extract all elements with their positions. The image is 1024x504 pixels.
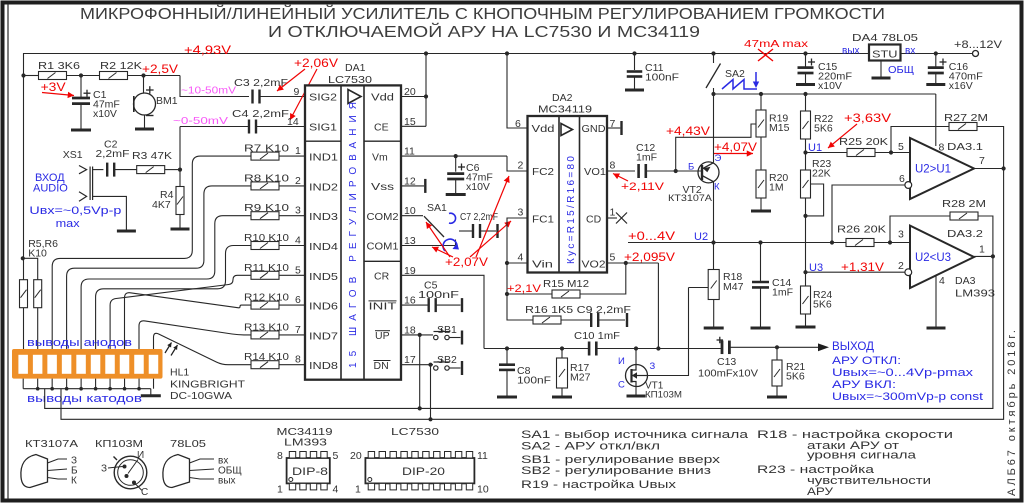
signal line CR/C8/R17/C10 — [484, 348, 589, 350]
svg-text:IND6: IND6 — [309, 301, 338, 313]
svg-text:U2: U2 — [694, 231, 708, 243]
svg-text:8: 8 — [295, 354, 301, 366]
capacitor C6 47mF — [454, 154, 458, 158]
svg-text:1: 1 — [277, 484, 283, 496]
svg-text:VO1: VO1 — [584, 166, 606, 178]
svg-text:M27: M27 — [570, 372, 591, 384]
svg-text:K10: K10 — [28, 248, 47, 260]
svg-text:вых: вых — [218, 476, 236, 487]
wire DA3.1 output pin7 — [974, 168, 1004, 170]
wires R5,R6 to LED anodes — [23, 308, 25, 349]
svg-text:VO2: VO2 — [582, 259, 606, 271]
node U3 — [803, 270, 807, 274]
Vss pin12 termination — [401, 185, 424, 187]
ground R21 — [767, 396, 787, 399]
svg-text:IND4: IND4 — [309, 241, 338, 253]
svg-text:Uвх=~0,5Vp-p: Uвх=~0,5Vp-p — [29, 205, 121, 217]
wire fan IND6 — [125, 293, 252, 349]
resistor R26 20K — [846, 239, 874, 247]
svg-text:3: 3 — [295, 205, 301, 217]
svg-text:8: 8 — [610, 160, 616, 172]
resistor R3 — [137, 166, 165, 174]
inner left margin line — [7, 4, 9, 499]
svg-text:АЛБ67 октябрь 2018г.: АЛБ67 октябрь 2018г. — [1006, 330, 1018, 496]
svg-text:CR: CR — [374, 271, 390, 283]
svg-text:11: 11 — [477, 450, 488, 462]
svg-text:IND2: IND2 — [309, 181, 338, 193]
node U1 — [803, 150, 807, 154]
capacitor C3 — [253, 90, 260, 104]
capacitor C11 100nF — [634, 54, 636, 71]
ground 78L05 — [872, 77, 891, 80]
wire CE pin15 & Vdd pin20 to rail — [401, 96, 426, 98]
ground R17 — [552, 396, 572, 399]
svg-text:XS1: XS1 — [63, 149, 83, 161]
svg-text:MC34119: MC34119 — [538, 104, 592, 116]
svg-text:+4,43V: +4,43V — [666, 126, 710, 138]
ground C1 — [71, 129, 91, 132]
svg-text:DC-10GWA: DC-10GWA — [170, 390, 232, 402]
svg-text:R2 12K: R2 12K — [100, 60, 142, 72]
bus: DA3.1 output to DN button — [61, 169, 1004, 420]
ground R24 — [796, 326, 816, 329]
svg-text:1: 1 — [610, 207, 616, 219]
resistor R20 1M — [756, 170, 766, 198]
resistor R18 M47 — [713, 243, 715, 270]
op-amp U1: IC DA1 LC7530 block — [305, 85, 401, 379]
svg-text:З: З — [650, 361, 656, 372]
wire fan IND4 — [96, 246, 251, 350]
svg-text:AUDIO: AUDIO — [33, 183, 68, 195]
output arrow — [777, 346, 821, 348]
resistor R4 — [179, 170, 181, 186]
switch SA2 — [713, 54, 715, 64]
svg-text:Vdd: Vdd — [371, 92, 394, 104]
ground C6 — [446, 193, 466, 196]
svg-text:SB2 - регулирование вниз: SB2 - регулирование вниз — [521, 465, 711, 477]
svg-text:R26 20K: R26 20K — [837, 224, 886, 236]
svg-text:9: 9 — [294, 86, 300, 98]
svg-text:+2,06V: +2,06V — [294, 56, 338, 70]
svg-text:ВЫХОД: ВЫХОД — [832, 339, 874, 353]
resistor R5 — [20, 280, 28, 308]
ground C14 — [751, 327, 771, 330]
svg-text:x10V: x10V — [93, 108, 117, 120]
svg-text:INIT: INIT — [369, 300, 398, 312]
svg-text:DA4 78L05: DA4 78L05 — [852, 32, 918, 44]
ground C8 — [497, 396, 517, 399]
svg-text:SA1 - выбор источника сигнала: SA1 - выбор источника сигнала — [521, 429, 749, 441]
svg-text:3: 3 — [518, 207, 524, 219]
push button SB2 — [401, 364, 433, 366]
svg-text:1: 1 — [295, 145, 301, 157]
wire DN button to bottom bus — [430, 365, 432, 420]
wire fan IND2 — [67, 186, 251, 349]
svg-text:STU: STU — [872, 49, 898, 61]
ground C16 — [926, 83, 945, 86]
svg-text:DIP-8: DIP-8 — [292, 466, 328, 478]
svg-text:HL1: HL1 — [170, 367, 189, 379]
wire: line input node to C4 — [179, 127, 181, 170]
svg-text:4: 4 — [295, 235, 301, 247]
svg-text:+2,095V: +2,095V — [624, 252, 675, 264]
svg-text:DA3: DA3 — [955, 275, 976, 287]
svg-text:IND8: IND8 — [309, 360, 338, 372]
svg-text:SIG2: SIG2 — [309, 92, 337, 104]
svg-text:LC7530: LC7530 — [328, 74, 372, 86]
svg-text:ОБЩ: ОБЩ — [888, 65, 914, 76]
red X 47mA measuring point — [758, 49, 773, 61]
svg-text:5K6: 5K6 — [814, 123, 833, 135]
svg-text:Б: Б — [688, 162, 694, 173]
resistor R22 5K6 — [805, 94, 807, 111]
capacitor C2 — [107, 163, 114, 177]
wire VT1 gate to R18 tap — [648, 288, 689, 376]
svg-text:100nF: 100nF — [645, 72, 679, 84]
capacitor C13 100mF (electrolytic) — [722, 341, 729, 355]
svg-text:+8...12V: +8...12V — [954, 39, 1003, 51]
svg-text:R19 - настройка Uвых: R19 - настройка Uвых — [521, 479, 677, 491]
wire fan IND1 to LED segment 3 — [52, 156, 251, 349]
wire C10 to VT1/VO2/C13 — [596, 348, 722, 350]
wire CR pin19 down — [401, 275, 484, 348]
wire fan IND5 — [110, 275, 251, 349]
svg-text:IND3: IND3 — [309, 211, 338, 223]
wire VO2 pin5 — [607, 262, 658, 264]
svg-text:1: 1 — [979, 244, 985, 256]
svg-text:1: 1 — [355, 484, 361, 496]
transistor VT2 KT3107A (PNP) — [713, 94, 715, 163]
resistor R15 M12 — [505, 292, 509, 296]
svg-text:КТ3107А: КТ3107А — [25, 438, 78, 450]
svg-text:100nF: 100nF — [418, 289, 459, 301]
svg-text:FC2: FC2 — [532, 166, 554, 178]
capacitor C5 100nF on INIT — [401, 304, 429, 306]
svg-text:З: З — [101, 464, 107, 475]
svg-text:max: max — [56, 218, 81, 230]
svg-text:+3V: +3V — [41, 80, 66, 94]
svg-text:SA1: SA1 — [427, 202, 447, 214]
svg-text:2,2mF: 2,2mF — [96, 148, 130, 160]
svg-text:И: И — [137, 450, 144, 461]
svg-text:4K7: 4K7 — [152, 199, 171, 211]
svg-text:К: К — [71, 476, 77, 487]
svg-text:Vm: Vm — [372, 151, 388, 163]
svg-text:7: 7 — [295, 324, 301, 336]
svg-text:И ОТКЛЮЧАЕМОЙ АРУ НА LC7530 И: И ОТКЛЮЧАЕМОЙ АРУ НА LC7530 И MC34119 — [268, 23, 700, 41]
ground R20 — [751, 210, 771, 213]
wire C4 to SIG1 pin 14 — [256, 126, 305, 128]
svg-text:IND7: IND7 — [309, 330, 338, 342]
svg-text:DA1: DA1 — [345, 62, 366, 74]
LED light arrows — [165, 343, 172, 354]
red arrow to C1 — [42, 92, 74, 98]
wire fan IND3 — [81, 216, 251, 349]
svg-text:R25 20K: R25 20K — [839, 136, 888, 148]
svg-text:100mFx10V: 100mFx10V — [698, 368, 758, 380]
switch SA1 — [401, 215, 423, 217]
bus: DA3.2 output to UP button — [45, 256, 993, 408]
svg-text:5K6: 5K6 — [813, 299, 832, 311]
svg-text:LC7530: LC7530 — [391, 426, 439, 438]
svg-text:~10-50mV: ~10-50mV — [181, 85, 236, 97]
ground R4 — [171, 228, 190, 231]
resistor R17 M27 — [560, 346, 564, 350]
svg-text:SIG1: SIG1 — [309, 121, 337, 133]
svg-text:BM1: BM1 — [156, 95, 178, 107]
svg-text:DA2: DA2 — [552, 92, 573, 104]
svg-text:UP: UP — [375, 330, 390, 342]
svg-text:78L05: 78L05 — [170, 438, 206, 450]
svg-text:U2<U3: U2<U3 — [915, 252, 951, 264]
wire R1 row — [24, 75, 39, 77]
svg-text:КП103М: КП103М — [95, 438, 143, 450]
svg-text:С: С — [618, 380, 625, 391]
wire: +2,5V corner down to C3 line — [180, 76, 249, 97]
svg-text:U2>U1: U2>U1 — [915, 164, 951, 176]
svg-text:2: 2 — [518, 160, 524, 172]
transistor VT1 KP103M (JFET) — [634, 346, 638, 350]
svg-text:5K6: 5K6 — [786, 371, 805, 383]
svg-text:x10V: x10V — [466, 181, 490, 193]
svg-text:4: 4 — [333, 484, 339, 496]
wire U2 node line — [628, 242, 910, 244]
svg-text:x16V: x16V — [949, 80, 973, 92]
wire XS1 tip to C2 — [93, 169, 104, 171]
svg-text:5: 5 — [898, 141, 904, 153]
svg-text:DA3.1: DA3.1 — [947, 141, 983, 153]
svg-text:C10 1mF: C10 1mF — [574, 330, 620, 342]
wire to R6 — [23, 258, 38, 279]
capacitor C14 1mF — [760, 243, 762, 283]
svg-text:LM393: LM393 — [284, 437, 327, 449]
svg-text:8: 8 — [277, 450, 283, 462]
wire fan IND7 — [139, 321, 251, 349]
ground XS1 — [117, 230, 136, 233]
push button SB1 — [401, 334, 433, 336]
svg-text:+2,5V: +2,5V — [142, 62, 178, 76]
svg-text:1mF: 1mF — [772, 287, 793, 299]
wire UP button to bottom bus — [419, 335, 421, 409]
svg-text:+2,11V: +2,11V — [621, 181, 665, 193]
svg-text:5: 5 — [295, 264, 301, 276]
svg-text:С: С — [141, 487, 148, 498]
svg-text:20: 20 — [350, 450, 362, 462]
wire C3 to SIG2 pin 9 — [260, 96, 306, 98]
IC DA2 MC34119 block — [528, 116, 608, 273]
svg-text:M15: M15 — [769, 122, 790, 134]
svg-text:CD: CD — [586, 214, 602, 226]
svg-text:Vss: Vss — [371, 181, 394, 193]
svg-text:CE: CE — [374, 121, 389, 133]
resistor R6 — [34, 280, 42, 308]
svg-text:выводы анодов: выводы анодов — [27, 337, 132, 349]
wire fan IND8 — [154, 333, 252, 364]
svg-text:уровня сигнала: уровня сигнала — [807, 450, 917, 462]
svg-text:SB2: SB2 — [437, 354, 457, 366]
capacitor C16 470mF — [935, 54, 937, 68]
svg-text:+4,07V: +4,07V — [714, 142, 757, 154]
svg-text:вх: вх — [905, 46, 915, 57]
wire VO1 pin8 to C12 — [607, 170, 635, 172]
LED bargraph HL1 KINGBRIGHT DC-10GWA — [12, 349, 163, 379]
svg-text:FC1: FC1 — [532, 214, 554, 226]
capacitor C1 (electrolytic 47mF) — [80, 76, 82, 98]
comparator DA3.1 — [910, 138, 974, 199]
svg-text:КТ3107А: КТ3107А — [668, 193, 713, 204]
svg-text:GND: GND — [582, 123, 606, 135]
svg-text:+4,93V: +4,93V — [184, 43, 231, 57]
svg-text:Vdd: Vdd — [532, 123, 555, 135]
svg-text:SA2: SA2 — [725, 68, 745, 80]
svg-text:АРУ ВКЛ:: АРУ ВКЛ: — [832, 379, 896, 391]
svg-text:R28 2M: R28 2M — [942, 198, 986, 210]
svg-text:4: 4 — [939, 275, 945, 287]
svg-text:5: 5 — [610, 252, 616, 264]
+4,93V supply rail — [24, 54, 870, 76]
svg-text:x10V: x10V — [818, 80, 842, 92]
svg-text:~0-50mV: ~0-50mV — [173, 115, 228, 127]
svg-text:Э: Э — [715, 153, 722, 164]
svg-text:2: 2 — [295, 175, 301, 187]
resistor R24 5K6 — [805, 272, 807, 286]
svg-text:Vin: Vin — [532, 259, 553, 271]
wire Vdd pin6 from rail — [507, 54, 528, 129]
svg-text:14: 14 — [287, 116, 299, 128]
wire FC1 pin3 / Vin pin4 chain — [507, 218, 533, 320]
svg-text:И: И — [618, 356, 625, 367]
ground C11 — [625, 89, 644, 92]
svg-text:+3,63V: +3,63V — [844, 111, 891, 125]
svg-text:3: 3 — [898, 229, 904, 241]
wire DA3.2 output pin1 — [974, 255, 993, 257]
capacitor C4 — [249, 120, 256, 134]
svg-text:DN: DN — [374, 360, 389, 372]
svg-text:DIP-20: DIP-20 — [402, 466, 445, 478]
svg-text:6: 6 — [899, 173, 905, 185]
ground C15 — [796, 83, 815, 86]
svg-text:R3 47K: R3 47K — [132, 150, 172, 162]
LED cathode stubs and bus — [22, 379, 24, 389]
comparator DA3.2 — [910, 226, 974, 288]
svg-text:15 ШАГОВ РЕГУЛИРОВАНИЯ: 15 ШАГОВ РЕГУЛИРОВАНИЯ — [348, 102, 359, 368]
wire XS1 sleeve to ground — [93, 196, 127, 231]
svg-text:+2,1V: +2,1V — [507, 283, 542, 295]
ground R18 — [704, 327, 724, 330]
resistor R19 M15 — [760, 94, 762, 110]
svg-text:МИКРОФОННЫЙ/ЛИНЕЙНЫЙ УСИЛИТЕЛЬ: МИКРОФОННЫЙ/ЛИНЕЙНЫЙ УСИЛИТЕЛЬ С КНОПОЧН… — [80, 5, 885, 23]
capacitor C15 220mF — [805, 54, 807, 68]
svg-text:+0...4V: +0...4V — [628, 231, 675, 243]
svg-text:IND5: IND5 — [309, 271, 338, 283]
wire V+ to DA3 pin8 — [935, 94, 937, 146]
svg-text:4: 4 — [518, 252, 524, 264]
wire VO2 column down — [657, 263, 659, 349]
resistor R23 22K with tap — [805, 153, 807, 171]
resistor R21 5K6 — [776, 347, 778, 360]
ground LED cathodes — [141, 389, 161, 396]
CD pin1 no-connect X — [607, 217, 617, 219]
svg-text:2: 2 — [898, 260, 904, 272]
svg-text:LM393: LM393 — [955, 288, 995, 300]
svg-text:COM2: COM2 — [367, 211, 399, 223]
terminal +8...12V — [973, 51, 979, 57]
svg-text:C13: C13 — [717, 356, 736, 368]
svg-text:10: 10 — [477, 484, 489, 496]
svg-text:6: 6 — [295, 294, 301, 306]
resistor R1 — [39, 72, 67, 80]
switched supply rail — [714, 93, 936, 95]
svg-text:C4 2,2mF: C4 2,2mF — [232, 108, 289, 120]
microphone BM1 — [141, 73, 145, 77]
ground DA3 — [927, 327, 946, 330]
resistor R25 20K — [806, 152, 848, 154]
svg-text:7: 7 — [979, 155, 985, 167]
ground VT1 — [627, 395, 646, 398]
svg-text:5: 5 — [333, 450, 339, 462]
svg-text:SB1: SB1 — [437, 324, 457, 336]
svg-text:M47: M47 — [723, 281, 744, 293]
GND pin7 termination — [607, 127, 620, 129]
wire: long left drop from R1 node to R5 — [23, 76, 25, 280]
svg-text:АРУ: АРУ — [807, 486, 834, 498]
red arrow +2,06V to SIG1 wire — [290, 69, 317, 120]
wire Vm pin11 to FC2 with jog — [401, 155, 507, 157]
svg-text:1M: 1M — [769, 182, 784, 194]
capacitor C8 100nF — [505, 346, 509, 350]
red arrow +2,06V to SIG2 wire — [277, 69, 305, 91]
svg-text:R1 3K6: R1 3K6 — [38, 60, 80, 72]
svg-text:SA2 - АРУ откл/вкл: SA2 - АРУ откл/вкл — [521, 441, 660, 453]
svg-text:вых: вых — [842, 46, 860, 57]
svg-text:R15 M12: R15 M12 — [543, 278, 589, 290]
svg-text:R16 1K5 C9 2,2mF: R16 1K5 C9 2,2mF — [525, 304, 631, 316]
svg-text:Uвых=~300mVp-p const: Uвых=~300mVp-p const — [832, 391, 983, 403]
resistor R2 — [100, 72, 128, 80]
svg-text:COM1: COM1 — [367, 241, 399, 253]
svg-text:47mA max: 47mA max — [744, 38, 809, 50]
svg-text:22K: 22K — [812, 168, 831, 180]
wire +4,43V base bias tap — [676, 124, 756, 171]
svg-text:Uвых=~0...4Vp-pmax: Uвых=~0...4Vp-pmax — [832, 367, 974, 379]
node R1 left junction — [21, 73, 25, 77]
svg-text:IND1: IND1 — [309, 152, 338, 164]
svg-text:DA3.2: DA3.2 — [947, 228, 983, 240]
DA1 amplifier triangle — [348, 90, 361, 104]
wire: raw input rail right of 78L05 — [901, 53, 973, 55]
svg-text:KINGBRIGHT: KINGBRIGHT — [170, 379, 246, 391]
svg-text:КП103М: КП103М — [645, 390, 682, 400]
svg-text:1mF: 1mF — [636, 152, 657, 164]
svg-text:АРУ ОТКЛ:: АРУ ОТКЛ: — [832, 355, 901, 367]
svg-text:К: К — [714, 182, 720, 193]
DA2 amplifier triangle — [561, 124, 573, 136]
svg-text:+2,07V: +2,07V — [445, 257, 488, 269]
ground BM1 — [135, 115, 154, 129]
svg-text:100nF: 100nF — [517, 375, 551, 387]
junction dots on rail — [424, 51, 428, 55]
